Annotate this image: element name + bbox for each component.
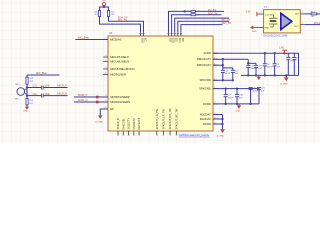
svg-text:100nF: 100nF: [290, 60, 296, 62]
svg-text:MCLK: MCLK: [314, 22, 320, 25]
svg-text:100nF: 100nF: [253, 91, 259, 93]
svg-text:SDO: SDO: [172, 38, 175, 43]
svg-text:MIC: MIC: [15, 99, 19, 101]
svg-text:GND: GND: [235, 111, 240, 113]
svg-text:SPKLP_B: SPKLP_B: [116, 118, 120, 130]
svg-text:10uF: 10uF: [45, 86, 51, 88]
svg-text:100nF: 100nF: [228, 98, 234, 100]
svg-text:MICLN/LINELN: MICLN/LINELN: [110, 59, 129, 63]
svg-text:1.8V: 1.8V: [279, 47, 284, 50]
svg-text:MICR_P: MICR_P: [78, 94, 88, 97]
svg-text:SPKOUT_RP_TW: SPKOUT_RP_TW: [174, 108, 178, 129]
svg-text:3: 3: [302, 12, 303, 14]
svg-text:MICDET2: MICDET2: [132, 118, 136, 130]
svg-text:A_GND: A_GND: [280, 83, 288, 86]
svg-text:MICRN/LINERN: MICRN/LINERN: [110, 100, 130, 104]
svg-text:3.3V: 3.3V: [246, 11, 251, 14]
svg-text:31: 31: [170, 134, 172, 136]
svg-text:100nF: 100nF: [267, 67, 273, 69]
svg-text:MICL/LINEL/MONO: MICL/LINEL/MONO: [110, 67, 134, 71]
svg-text:GND: GND: [23, 110, 28, 112]
svg-text:10B: 10B: [295, 14, 299, 16]
svg-text:SCK: SCK: [178, 38, 181, 43]
svg-text:SDA_5V: SDA_5V: [208, 12, 218, 15]
svg-text:31: 31: [139, 134, 141, 136]
svg-text:DACDAT: DACDAT: [200, 117, 211, 121]
svg-text:1.5V: 1.5V: [265, 14, 270, 16]
svg-text:DVDD: DVDD: [203, 102, 211, 106]
svg-text:31: 31: [128, 134, 130, 136]
svg-text:MICR_P: MICR_P: [58, 85, 68, 88]
svg-text:SDI: SDI: [175, 38, 178, 42]
svg-text:DGND: DGND: [203, 122, 211, 126]
svg-text:GND: GND: [252, 31, 257, 33]
svg-text:A_GND: A_GND: [95, 121, 103, 124]
svg-text:MICR_N: MICR_N: [58, 93, 68, 96]
svg-text:OUT: OUT: [294, 26, 299, 28]
svg-text:MICRP/LINERP: MICRP/LINERP: [110, 95, 130, 99]
svg-text:DMICDAT1: DMICDAT1: [197, 57, 211, 61]
svg-text:MICR/LINER: MICR/LINER: [110, 72, 126, 76]
svg-text:AVDD: AVDD: [203, 51, 210, 55]
svg-text:C11: C11: [33, 94, 38, 96]
svg-text:DMICSEL: DMICSEL: [121, 118, 125, 130]
svg-text:MK1: MK1: [15, 84, 20, 86]
svg-text:SCL: SCL: [143, 38, 146, 43]
svg-text:SELECT1: SELECT1: [127, 118, 131, 130]
svg-text:DMICDAT2: DMICDAT2: [197, 63, 211, 67]
svg-text:DSC1001CI2-012.2880: DSC1001CI2-012.2880: [263, 35, 288, 37]
svg-text:SPKVDD: SPKVDD: [199, 78, 210, 82]
svg-text:RST: RST: [168, 38, 171, 43]
svg-text:SPKOUT_LP_TW: SPKOUT_LP_TW: [161, 109, 165, 130]
svg-text:SPKGND: SPKGND: [199, 87, 211, 91]
svg-text:10uF: 10uF: [45, 94, 51, 96]
svg-text:31: 31: [157, 134, 159, 136]
svg-text:4: 4: [302, 23, 303, 25]
svg-text:1: 1: [260, 12, 261, 14]
svg-text:SCL_5V: SCL_5V: [118, 19, 128, 22]
svg-text:DETECT3: DETECT3: [137, 117, 141, 129]
svg-text:EP: EP: [110, 107, 114, 111]
svg-text:DET_5V: DET_5V: [222, 22, 232, 25]
svg-text:GND: GND: [264, 28, 269, 30]
svg-text:MICR_N: MICR_N: [78, 99, 88, 102]
svg-text:31: 31: [118, 134, 120, 136]
svg-text:SPKOUT_LN_TW: SPKOUT_LN_TW: [155, 108, 159, 129]
svg-text:C10: C10: [33, 86, 38, 88]
svg-text:31: 31: [163, 134, 165, 136]
svg-text:MIC_Bias: MIC_Bias: [78, 37, 90, 40]
svg-text:MICLP/LINELP: MICLP/LINELP: [110, 55, 129, 59]
svg-text:SPKOUT_RN_TW: SPKOUT_RN_TW: [168, 108, 172, 130]
svg-text:31: 31: [134, 134, 136, 136]
svg-text:A_GND: A_GND: [217, 135, 225, 138]
svg-text:100nF: 100nF: [225, 73, 231, 75]
svg-text:SDA: SDA: [140, 38, 143, 43]
svg-text:31: 31: [123, 134, 125, 136]
svg-text:100nF: 100nF: [250, 68, 256, 70]
svg-text:ADCDAT: ADCDAT: [200, 112, 211, 116]
svg-text:5V0: 5V0: [102, 0, 105, 2]
svg-text:2: 2: [260, 26, 261, 28]
svg-text:INT: INT: [181, 38, 184, 42]
svg-text:MICBIAS: MICBIAS: [110, 37, 121, 41]
svg-text:MIC_Bias: MIC_Bias: [36, 72, 48, 75]
